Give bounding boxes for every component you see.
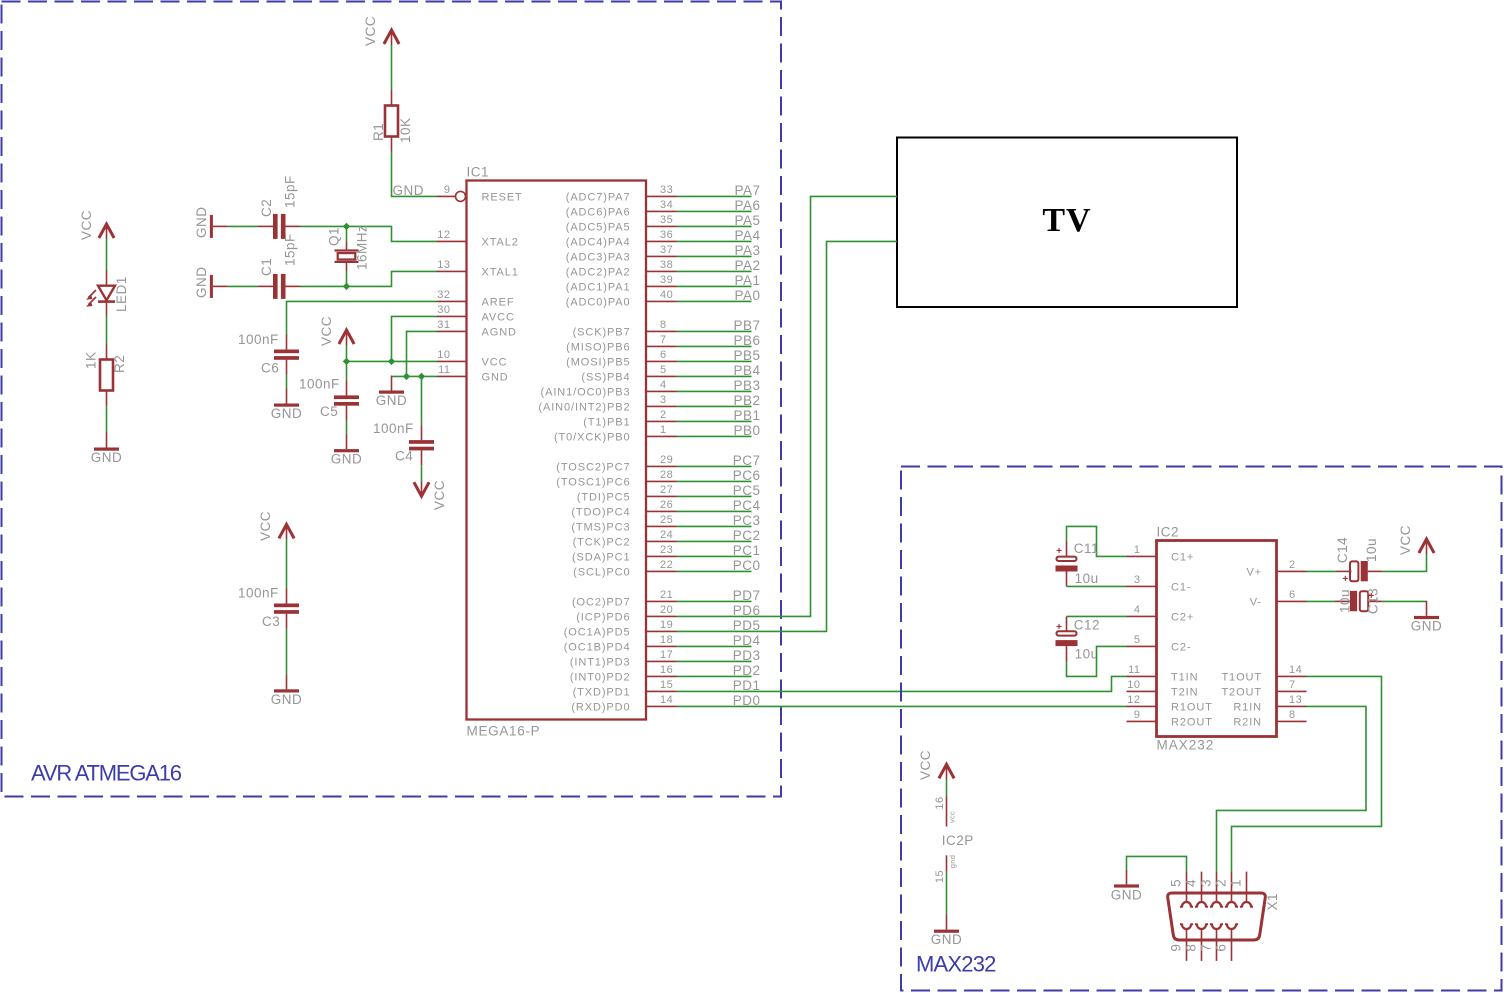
svg-text:X1: X1 <box>1265 893 1280 911</box>
svg-text:15pF: 15pF <box>283 233 298 266</box>
svg-text:VCC: VCC <box>918 750 933 780</box>
svg-text:(TMS)PC3: (TMS)PC3 <box>571 521 630 533</box>
svg-text:(INT1)PD3: (INT1)PD3 <box>570 656 631 668</box>
svg-text:4: 4 <box>1184 879 1199 887</box>
frame AVR ATMEGA16 module (dashed border) <box>2 2 782 797</box>
svg-text:PB3: PB3 <box>733 378 760 393</box>
svg-text:PC1: PC1 <box>733 543 761 558</box>
net stub PB1 <box>677 408 761 423</box>
svg-text:PC2: PC2 <box>733 528 761 543</box>
svg-text:10: 10 <box>1127 679 1140 691</box>
IC1 pin 7 (MISO)PB6 <box>566 334 676 353</box>
svg-text:(AIN0/INT2)PB2: (AIN0/INT2)PB2 <box>538 401 630 413</box>
svg-text:(TDI)PC5: (TDI)PC5 <box>577 491 631 503</box>
svg-text:1: 1 <box>1134 544 1141 556</box>
svg-text:R1IN: R1IN <box>1233 701 1262 713</box>
wire PD5 to TV <box>677 241 898 631</box>
wire crystal to XTAL1 node <box>346 271 348 286</box>
svg-text:PC0: PC0 <box>733 558 761 573</box>
IC1 pin 39 (ADC1)PA1 <box>566 274 677 293</box>
svg-text:GND: GND <box>194 267 209 299</box>
svg-text:C14: C14 <box>1335 537 1350 563</box>
capacitor C5 <box>334 380 359 420</box>
svg-text:PB4: PB4 <box>733 363 760 378</box>
wire R2 to ground <box>106 406 108 433</box>
IC2 pin 6 V- <box>1250 589 1307 608</box>
wire C5 to ground <box>346 421 348 435</box>
svg-text:3: 3 <box>1134 574 1141 586</box>
svg-text:PB0: PB0 <box>733 423 760 438</box>
svg-text:MEGA16-P: MEGA16-P <box>467 724 541 739</box>
IC2 pin 12 R1OUT <box>1127 694 1213 713</box>
svg-text:PC3: PC3 <box>733 513 761 528</box>
IC1 pin 37 (ADC3)PA3 <box>566 244 677 263</box>
net stub PD7 <box>677 588 761 603</box>
svg-text:V-: V- <box>1250 596 1262 608</box>
ground GND (pin11 row) <box>379 376 404 394</box>
svg-text:PA3: PA3 <box>734 243 760 258</box>
svg-text:PB1: PB1 <box>733 408 760 423</box>
IC2 pin 14 T1OUT <box>1221 664 1306 683</box>
svg-text:5: 5 <box>1134 634 1141 646</box>
svg-text:GND: GND <box>393 183 425 198</box>
svg-text:XTAL2: XTAL2 <box>482 236 519 248</box>
net stub PC3 <box>677 513 761 528</box>
svg-text:14: 14 <box>1289 664 1302 676</box>
IC1 pin 35 (ADC5)PA5 <box>566 214 677 233</box>
net stub PA1 <box>677 273 761 288</box>
capacitor C11 polarized <box>1056 542 1078 587</box>
wire GND to C1 <box>228 285 258 287</box>
svg-text:100nF: 100nF <box>373 421 414 436</box>
svg-text:LED1: LED1 <box>114 276 129 312</box>
capacitor C6 <box>274 335 299 375</box>
svg-text:7: 7 <box>1289 679 1296 691</box>
svg-text:(ICP)PD6: (ICP)PD6 <box>576 611 630 623</box>
wire AVCC pin 30 to VCC row <box>392 316 437 361</box>
net stub PB4 <box>677 363 761 378</box>
svg-text:VCC: VCC <box>258 511 273 541</box>
net stub PD3 <box>677 648 761 663</box>
X1 pin 3 <box>1199 872 1224 907</box>
svg-text:VCC: VCC <box>319 316 334 346</box>
wire XTAL2 node to IC1 pin 12 <box>347 226 437 241</box>
junction VCC/C5 <box>343 358 350 365</box>
svg-text:GND: GND <box>271 692 303 707</box>
svg-text:AGND: AGND <box>482 326 517 338</box>
IC1 pin 1 (T0/XCK)PB0 <box>554 424 677 443</box>
svg-text:25: 25 <box>660 514 673 526</box>
svg-text:2: 2 <box>660 409 667 421</box>
svg-text:C2+: C2+ <box>1171 611 1194 623</box>
X1 pin 5 <box>1169 872 1194 907</box>
svg-text:8: 8 <box>1184 944 1199 952</box>
svg-text:C2-: C2- <box>1171 641 1191 653</box>
capacitor C1 <box>258 274 301 299</box>
LED LED1 <box>86 271 115 316</box>
svg-text:GND: GND <box>271 406 303 421</box>
svg-text:15: 15 <box>934 870 946 883</box>
svg-text:VCC: VCC <box>79 210 94 240</box>
svg-text:C4: C4 <box>395 449 413 464</box>
wire C3 to ground <box>286 629 288 675</box>
svg-text:PD4: PD4 <box>733 633 761 648</box>
junction GND/C4 <box>418 373 425 380</box>
svg-text:PA7: PA7 <box>734 183 760 198</box>
ground GND (X1) <box>1114 869 1139 887</box>
svg-text:PA1: PA1 <box>734 273 760 288</box>
svg-text:10u: 10u <box>1075 571 1099 586</box>
svg-text:GND: GND <box>1411 618 1443 633</box>
svg-text:38: 38 <box>660 259 673 271</box>
svg-text:9: 9 <box>444 184 451 196</box>
svg-text:1: 1 <box>1229 879 1244 887</box>
svg-text:PA4: PA4 <box>734 228 760 243</box>
svg-text:10u: 10u <box>1364 538 1379 562</box>
svg-text:vcc: vcc <box>948 811 957 823</box>
wire IC1 AREF pin 32 to C6 <box>287 301 437 334</box>
svg-text:GND: GND <box>91 450 123 465</box>
wire ground to X1 pin 5 <box>1127 856 1187 871</box>
svg-text:11: 11 <box>1128 664 1140 676</box>
ground GND (C6) <box>274 389 299 407</box>
svg-text:16: 16 <box>660 664 673 676</box>
svg-text:5: 5 <box>660 364 667 376</box>
wire C11 to IC2 pin 3 <box>1067 585 1127 587</box>
wire C6 to ground <box>286 375 288 389</box>
capacitor C2 <box>258 214 301 239</box>
svg-text:GND: GND <box>376 393 408 408</box>
net stub PD6 <box>733 603 761 618</box>
svg-text:+: + <box>1056 622 1062 633</box>
wire R1IN to X1 pin 3 <box>1217 706 1367 871</box>
svg-text:27: 27 <box>660 484 673 496</box>
svg-text:10: 10 <box>437 349 450 361</box>
svg-text:12: 12 <box>437 229 450 241</box>
net stub PB0 <box>677 423 761 438</box>
svg-text:21: 21 <box>660 589 673 601</box>
svg-text:34: 34 <box>660 199 673 211</box>
wire T1OUT to X1 pin 2 <box>1232 676 1382 871</box>
wire IC2 pin 2 to C14 <box>1307 570 1337 572</box>
net stub PB2 <box>677 393 761 408</box>
svg-text:26: 26 <box>660 499 673 511</box>
svg-text:(T0/XCK)PB0: (T0/XCK)PB0 <box>554 431 631 443</box>
svg-text:GND: GND <box>1111 888 1143 903</box>
svg-text:C13: C13 <box>1366 588 1381 614</box>
wire IC2P pin 15 to ground <box>946 872 948 915</box>
wire VCC node to C5 <box>346 361 348 380</box>
IC IC1 MEGA16-P body <box>467 181 647 720</box>
net stub PC0 <box>677 558 761 573</box>
svg-text:2: 2 <box>1214 879 1229 887</box>
svg-text:(T1)PB1: (T1)PB1 <box>583 416 630 428</box>
svg-text:17: 17 <box>660 649 673 661</box>
net stub PA5 <box>677 213 761 228</box>
svg-text:AREF: AREF <box>482 296 515 308</box>
svg-text:(OC2)PD7: (OC2)PD7 <box>572 596 631 608</box>
frame MAX232 module (dashed border) <box>901 467 1502 991</box>
X1 pin 4 <box>1184 872 1209 907</box>
wire R1 to IC1 RESET pin 9 <box>392 152 437 197</box>
svg-text:16: 16 <box>934 796 946 809</box>
svg-text:VCC: VCC <box>363 16 378 46</box>
IC1 pin 8 (SCK)PB7 <box>573 319 677 338</box>
IC1 pin 4 (AIN1/OC0)PB3 <box>541 379 677 398</box>
svg-text:(SS)PB4: (SS)PB4 <box>581 371 630 383</box>
net stub PC2 <box>677 528 761 543</box>
ground GND (C3) <box>274 674 299 692</box>
net stub PB5 <box>677 348 761 363</box>
svg-text:18: 18 <box>660 634 673 646</box>
power VCC down (C4) <box>414 481 429 496</box>
IC1 pin 6 (MOSI)PB5 <box>566 349 676 368</box>
svg-text:100nF: 100nF <box>299 377 340 392</box>
svg-text:(SCL)PC0: (SCL)PC0 <box>573 566 630 578</box>
X1 pin 9 <box>1169 924 1194 961</box>
svg-text:30: 30 <box>437 304 450 316</box>
wire GND row to C4 <box>421 376 423 425</box>
svg-text:23: 23 <box>660 544 673 556</box>
wire XTAL1 node to IC1 pin 13 <box>347 271 437 286</box>
net stub PA6 <box>677 198 761 213</box>
svg-text:8: 8 <box>1289 709 1296 721</box>
IC2 pin 10 T2IN <box>1127 679 1199 698</box>
svg-text:PD7: PD7 <box>733 588 761 603</box>
svg-text:Q1: Q1 <box>327 227 342 246</box>
wire VCC to C3 <box>286 539 288 588</box>
svg-text:12: 12 <box>1127 694 1140 706</box>
IC1 pin 13 XTAL1 <box>437 259 519 278</box>
IC1 pin 29 (TOSC2)PC7 <box>556 454 676 473</box>
wire C12 to IC2 pin 5 <box>1067 646 1127 676</box>
net stub PC1 <box>677 543 761 558</box>
capacitor C14 polarized <box>1337 561 1382 581</box>
IC1 pin 31 AGND <box>437 319 517 338</box>
wire PD0 to MAX232 R1OUT <box>677 705 1127 707</box>
svg-text:R2OUT: R2OUT <box>1171 716 1213 728</box>
svg-text:(RXD)PD0: (RXD)PD0 <box>571 701 630 713</box>
IC1 pin 20 (ICP)PD6 <box>576 604 676 623</box>
svg-text:+: + <box>1342 574 1348 585</box>
wire XTAL2 node to crystal <box>346 226 348 241</box>
svg-text:28: 28 <box>660 469 673 481</box>
IC1 pin 23 (SDA)PC1 <box>572 544 677 563</box>
power VCC (C14) <box>1419 539 1434 554</box>
X1 pin 1 <box>1229 872 1254 907</box>
net stub PB3 <box>677 378 761 393</box>
svg-text:(ADC6)PA6: (ADC6)PA6 <box>566 206 631 218</box>
svg-text:(ADC3)PA3: (ADC3)PA3 <box>566 251 631 263</box>
X1 pin 6 <box>1214 924 1239 961</box>
svg-text:2: 2 <box>1289 559 1296 571</box>
svg-text:32: 32 <box>437 289 450 301</box>
svg-text:C1+: C1+ <box>1171 551 1194 563</box>
svg-text:(ADC4)PA4: (ADC4)PA4 <box>566 236 631 248</box>
IC1 pin 26 (TDO)PC4 <box>571 499 676 518</box>
capacitor C13 polarized <box>1335 591 1382 611</box>
junction VCC/AVCC <box>388 358 395 365</box>
svg-text:5: 5 <box>1169 879 1184 887</box>
block TV <box>897 138 1237 308</box>
svg-text:4: 4 <box>1134 604 1141 616</box>
svg-text:(TCK)PC2: (TCK)PC2 <box>573 536 631 548</box>
svg-text:(TOSC2)PC7: (TOSC2)PC7 <box>556 461 630 473</box>
IC1 pin 12 XTAL2 <box>437 229 519 248</box>
svg-text:C6: C6 <box>261 361 279 376</box>
junction AGND/GND <box>403 373 410 380</box>
ground GND (LED branch) <box>94 433 119 451</box>
net stub PA3 <box>677 243 761 258</box>
IC1 pin 11 GND <box>437 364 509 383</box>
svg-text:1K: 1K <box>84 351 99 369</box>
svg-text:RESET: RESET <box>482 191 523 203</box>
svg-text:GND: GND <box>931 932 963 947</box>
resistor R2 <box>100 345 113 406</box>
svg-text:(MISO)PB6: (MISO)PB6 <box>566 341 630 353</box>
net stub PB7 <box>677 318 761 333</box>
IC1 pin 9 RESET <box>437 184 523 203</box>
svg-text:MAX232: MAX232 <box>916 952 996 977</box>
IC1 pin 5 (SS)PB4 <box>581 364 676 383</box>
svg-text:C12: C12 <box>1074 618 1100 633</box>
svg-text:C1-: C1- <box>1171 581 1191 593</box>
IC1 pin 27 (TDI)PC5 <box>577 484 677 503</box>
IC2 pin 4 C2+ <box>1127 604 1195 623</box>
svg-text:13: 13 <box>437 259 450 271</box>
IC1 pin 19 (OC1A)PD5 <box>564 619 677 638</box>
wire VCC to R1 <box>391 45 393 91</box>
IC1 pin 30 AVCC <box>437 304 515 323</box>
svg-text:IC2P: IC2P <box>942 833 974 848</box>
svg-text:20: 20 <box>660 604 673 616</box>
IC1 pin 38 (ADC2)PA2 <box>566 259 677 278</box>
ground GND (IC2P) <box>934 915 959 933</box>
wire GND to C2 <box>228 225 258 227</box>
svg-text:PC5: PC5 <box>733 483 761 498</box>
svg-text:36: 36 <box>660 229 673 241</box>
svg-text:PA0: PA0 <box>734 288 760 303</box>
svg-text:PC7: PC7 <box>733 453 761 468</box>
IC1 pin 16 (INT0)PD2 <box>570 664 677 683</box>
svg-text:GND: GND <box>194 207 209 239</box>
svg-text:T1OUT: T1OUT <box>1221 671 1262 683</box>
IC2P pin 15 GND <box>934 855 957 883</box>
svg-text:VCC: VCC <box>432 480 447 510</box>
svg-text:T1IN: T1IN <box>1171 671 1198 683</box>
svg-text:(ADC5)PA5: (ADC5)PA5 <box>566 221 631 233</box>
svg-text:C1: C1 <box>259 258 274 276</box>
ground GND (C5) <box>334 434 359 452</box>
svg-text:AVR ATMEGA16: AVR ATMEGA16 <box>31 761 182 786</box>
IC1 pin 24 (TCK)PC2 <box>573 529 677 548</box>
svg-text:PA2: PA2 <box>734 258 760 273</box>
net stub PD2 <box>677 663 761 678</box>
svg-text:PA6: PA6 <box>734 198 760 213</box>
svg-text:(INT0)PD2: (INT0)PD2 <box>570 671 631 683</box>
IC2 pin 2 V+ <box>1246 559 1306 578</box>
wire IC2 pin 6 to C13 <box>1307 600 1336 602</box>
svg-text:3: 3 <box>660 394 667 406</box>
svg-text:R1OUT: R1OUT <box>1171 701 1213 713</box>
svg-text:PB2: PB2 <box>733 393 760 408</box>
svg-text:(ADC2)PA2: (ADC2)PA2 <box>566 266 631 278</box>
svg-text:(SDA)PC1: (SDA)PC1 <box>572 551 631 563</box>
svg-text:29: 29 <box>660 454 673 466</box>
net stub PA4 <box>677 228 761 243</box>
IC2 pin 9 R2OUT <box>1127 709 1213 728</box>
svg-text:TV: TV <box>1042 202 1091 239</box>
svg-text:(SCK)PB7: (SCK)PB7 <box>573 326 631 338</box>
IC1 pin 32 AREF <box>437 289 515 308</box>
svg-text:VCC: VCC <box>482 356 508 368</box>
svg-text:7: 7 <box>1199 944 1214 952</box>
svg-text:37: 37 <box>660 244 673 256</box>
svg-text:+: + <box>1056 546 1062 557</box>
svg-text:1: 1 <box>660 424 667 436</box>
svg-text:C3: C3 <box>262 614 280 629</box>
svg-text:19: 19 <box>660 619 673 631</box>
X1 pin 8 <box>1184 924 1209 961</box>
svg-text:9: 9 <box>1169 944 1184 952</box>
net stub PC7 <box>677 453 761 468</box>
net stub PA2 <box>677 258 761 273</box>
capacitor C3 <box>274 589 299 629</box>
wire C1 to XTAL1 node <box>301 285 347 287</box>
svg-text:13: 13 <box>1289 694 1302 706</box>
IC1 pin 14 (RXD)PD0 <box>571 694 676 713</box>
wire VCC row to IC1 pin 10 <box>347 360 437 362</box>
wire C2 to XTAL2 node <box>301 225 347 227</box>
svg-text:T2IN: T2IN <box>1171 686 1198 698</box>
svg-text:15pF: 15pF <box>283 175 298 208</box>
svg-text:10u: 10u <box>1338 589 1353 613</box>
svg-text:R1: R1 <box>371 123 386 141</box>
wire VCC to LED1 <box>106 239 108 271</box>
svg-text:C11: C11 <box>1074 541 1099 556</box>
svg-text:(OC1A)PD5: (OC1A)PD5 <box>564 626 631 638</box>
svg-text:33: 33 <box>660 184 673 196</box>
svg-text:6: 6 <box>660 349 667 361</box>
svg-text:24: 24 <box>660 529 673 541</box>
IC1 pin 18 (OC1B)PD4 <box>564 634 677 653</box>
power VCC (IC2P) <box>939 764 954 779</box>
IC2 pin 8 R2IN <box>1233 709 1306 728</box>
svg-text:40: 40 <box>660 289 673 301</box>
svg-text:(TDO)PC4: (TDO)PC4 <box>571 506 630 518</box>
net stub PB6 <box>677 333 761 348</box>
wire C14 to VCC <box>1382 554 1427 571</box>
power VCC (C3) <box>279 524 294 539</box>
IC1 pin 15 (TXD)PD1 <box>573 679 677 698</box>
svg-text:16MHz: 16MHz <box>355 225 370 270</box>
svg-text:C5: C5 <box>320 404 338 419</box>
IC1 pin 2 (T1)PB1 <box>583 409 676 428</box>
svg-text:10u: 10u <box>1075 647 1099 662</box>
svg-text:gnd: gnd <box>948 855 957 868</box>
svg-text:PB6: PB6 <box>733 333 760 348</box>
svg-text:6: 6 <box>1214 944 1229 952</box>
IC IC2 MAX232 body <box>1157 541 1277 737</box>
svg-text:8: 8 <box>660 319 667 331</box>
IC1 pin 10 VCC <box>437 349 508 368</box>
svg-text:6: 6 <box>1289 589 1296 601</box>
capacitor C12 polarized <box>1056 616 1078 661</box>
wire VCC to IC2P pin 16 <box>946 779 948 796</box>
svg-text:(ADC1)PA1: (ADC1)PA1 <box>566 281 631 293</box>
IC2 pin 1 C1+ <box>1127 544 1195 563</box>
svg-text:PB7: PB7 <box>733 318 760 333</box>
